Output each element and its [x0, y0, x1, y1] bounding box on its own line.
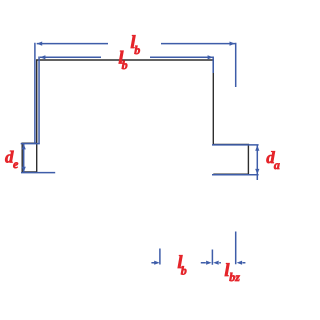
svg-text:e: e: [13, 157, 19, 171]
svg-text:b: b: [122, 58, 128, 72]
svg-text:b: b: [181, 264, 187, 278]
svg-text:bz: bz: [229, 270, 240, 284]
svg-text:b: b: [134, 43, 140, 57]
svg-text:a: a: [274, 158, 280, 172]
